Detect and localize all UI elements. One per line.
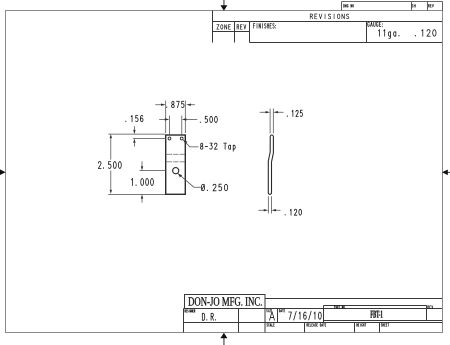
- dimension .125: [260, 109, 284, 134]
- size value A: [270, 312, 275, 321]
- gauge label: [368, 22, 383, 26]
- rev label title: [428, 306, 433, 309]
- rev label: [237, 25, 246, 30]
- company name DON-JO MFG. INC.: [188, 297, 261, 306]
- designer label: [185, 310, 195, 313]
- sheet label: [381, 324, 389, 327]
- top center registration arrow: [220, 0, 227, 11]
- revisions header: [310, 14, 349, 19]
- right center registration arrow: [442, 170, 450, 176]
- date label: [279, 309, 285, 312]
- part no label: [334, 306, 345, 309]
- dimension .156: [133, 126, 166, 146]
- tap hole right: [180, 137, 183, 140]
- sh label: [412, 4, 416, 7]
- designer value D.R.: [202, 313, 215, 320]
- dimension .875: [155, 101, 195, 134]
- date value 7/16/10: [289, 311, 322, 320]
- gauge value .120: [415, 30, 436, 37]
- weight label: [357, 324, 366, 327]
- front view plate outline: [166, 135, 186, 194]
- tap hole left: [168, 137, 171, 140]
- dwg no label: [344, 4, 354, 7]
- side view strip outline: [268, 135, 273, 194]
- zone label: [217, 25, 231, 30]
- part no value FBT-1: [370, 311, 382, 318]
- rev label top: [428, 4, 433, 7]
- leader dia .250: [178, 174, 201, 188]
- leader 8-32 tap: [183, 140, 198, 147]
- gauge value 11ga: [379, 30, 400, 39]
- finishes label: [254, 24, 276, 29]
- dimension .120: [258, 196, 280, 213]
- dimension 2.500: [108, 134, 165, 194]
- dimension .500: [159, 116, 197, 135]
- bend line lower: [167, 161, 185, 163]
- title block grid: [184, 299, 443, 333]
- bottom center registration arrow: [220, 333, 227, 345]
- dimension 1.000: [140, 161, 167, 202]
- bend line upper: [167, 153, 185, 155]
- scale label: [267, 324, 275, 327]
- revisions table lines: [213, 11, 443, 43]
- center hole: [173, 168, 179, 174]
- size label: [267, 309, 272, 312]
- left center registration arrow: [0, 169, 6, 175]
- release date label: [307, 324, 326, 327]
- dwg-no strip top right: [342, 2, 443, 11]
- company box: [185, 295, 266, 309]
